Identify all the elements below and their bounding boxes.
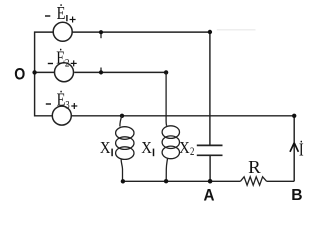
node E3/right branch <box>292 114 296 118</box>
svg-text:X: X <box>179 138 190 157</box>
svg-text:R: R <box>248 157 261 177</box>
wire capacitor branch upper <box>209 32 211 145</box>
svg-text:3: 3 <box>65 98 69 112</box>
resistor R <box>241 177 267 185</box>
svg-text:2: 2 <box>190 144 194 158</box>
wire bottom left segment <box>123 180 241 182</box>
wire bottom right segment <box>267 180 295 182</box>
label E1 <box>45 3 76 23</box>
svg-text:Ė: Ė <box>56 48 65 68</box>
node bottom inductor1 <box>121 179 125 183</box>
svg-text:A: A <box>204 187 215 204</box>
label X1 second <box>141 138 153 157</box>
node corner E1/capacitor <box>208 30 212 34</box>
svg-text:Ė: Ė <box>57 3 66 23</box>
label E3 <box>46 90 78 112</box>
node arrow mark on E1 wire <box>99 30 103 38</box>
inductor L1 X1 <box>116 116 134 182</box>
inductor L2 X1 <box>162 72 179 181</box>
node A <box>208 179 213 184</box>
current arrow I <box>290 143 298 152</box>
wire E1 right <box>72 31 210 33</box>
svg-text:B: B <box>291 187 302 203</box>
svg-text:Ė: Ė <box>57 90 66 110</box>
node bottom inductor2 <box>164 179 168 183</box>
source U2 E2 <box>55 63 74 82</box>
wire ghost faint top right <box>217 29 256 31</box>
svg-text:X: X <box>100 138 111 157</box>
node E3/inductor1 <box>120 114 124 118</box>
wire capacitor branch lower <box>209 156 211 181</box>
node E2/inductor2 <box>164 70 168 74</box>
source U3 E3 <box>52 106 71 125</box>
svg-text:O: O <box>14 65 25 83</box>
wire right branch B <box>293 116 295 182</box>
label X2 <box>179 138 194 158</box>
wire E2 right <box>74 71 166 73</box>
svg-text:X: X <box>141 138 152 157</box>
node arrow mark on E2 wire <box>99 68 103 75</box>
wire E3 right <box>71 115 294 117</box>
node O <box>32 70 36 74</box>
source U1 E1 <box>53 22 72 41</box>
wire left bus O <box>35 32 54 116</box>
svg-text:2: 2 <box>65 56 70 70</box>
wire E2 left <box>35 71 55 73</box>
label E2 <box>48 48 77 70</box>
svg-text:İ: İ <box>299 140 304 160</box>
capacitor C X2 <box>197 145 223 155</box>
label X1 first <box>100 138 112 157</box>
